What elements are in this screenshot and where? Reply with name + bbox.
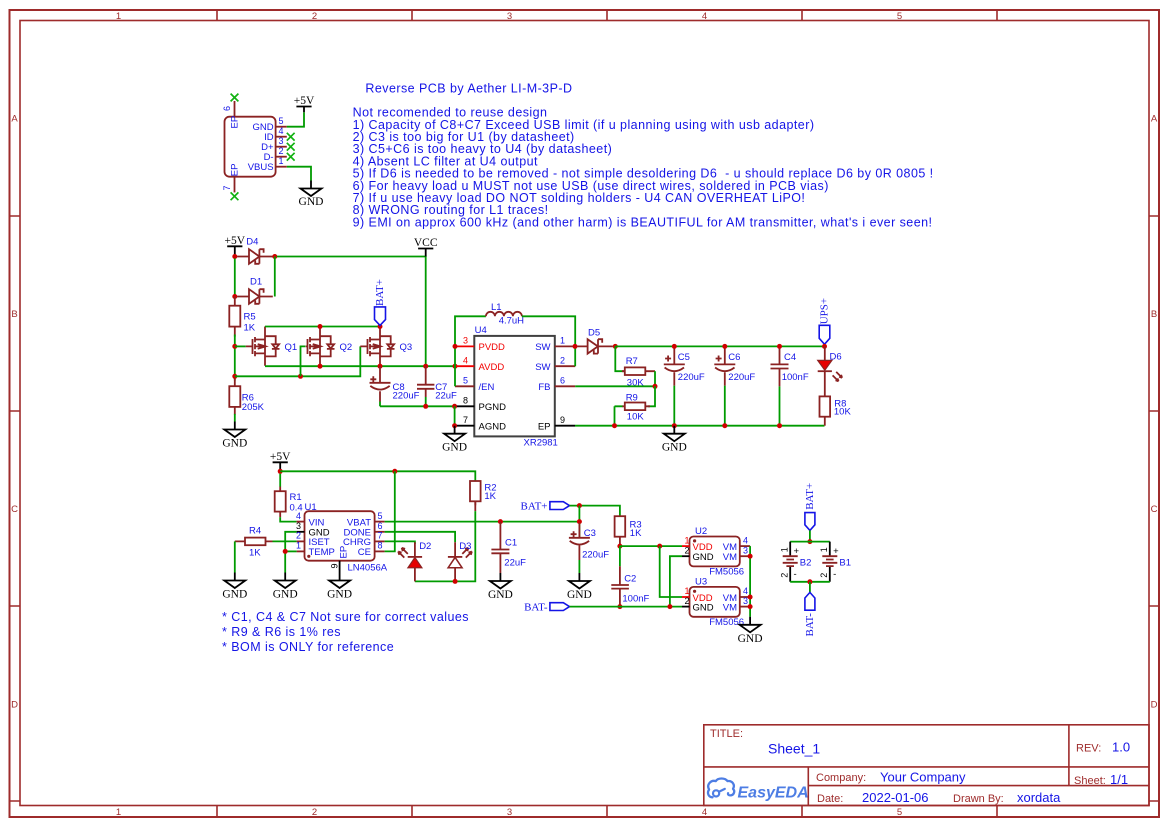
svg-text:2022-01-06: 2022-01-06 bbox=[862, 790, 929, 805]
svg-text:1K: 1K bbox=[484, 491, 496, 502]
net flag UPS+ bbox=[819, 298, 831, 344]
svg-text:7: 7 bbox=[463, 415, 468, 425]
frame bottom ticks bbox=[217, 806, 997, 818]
junction gate rail node bbox=[232, 374, 237, 379]
svg-text:TEMP: TEMP bbox=[309, 547, 335, 558]
svg-text:R9: R9 bbox=[626, 392, 638, 403]
svg-text:22uF: 22uF bbox=[435, 391, 457, 402]
svg-text:C6: C6 bbox=[728, 352, 740, 363]
junction Q2 gate drop bbox=[298, 374, 303, 379]
svg-text:22uF: 22uF bbox=[504, 558, 526, 569]
svg-text:220uF: 220uF bbox=[728, 372, 755, 383]
transistor Q1 bbox=[246, 327, 297, 366]
wire battery bottom to BAT- flag bbox=[809, 582, 811, 593]
NOTES TOP bbox=[353, 82, 934, 230]
pin 5 /EN bbox=[455, 385, 474, 387]
wire R4 to ISET bbox=[273, 540, 297, 542]
svg-text:B1: B1 bbox=[839, 557, 851, 568]
ground (C3) bbox=[569, 573, 590, 589]
junction C4 bottom bbox=[777, 423, 782, 428]
wire GND pin to +5V bbox=[287, 112, 304, 127]
pin 1 SW bbox=[555, 345, 575, 347]
junction C5 bottom bbox=[672, 423, 677, 428]
junction C1 top bbox=[498, 519, 503, 524]
U2 pin 2 GND bbox=[682, 555, 690, 557]
ground (C5) bbox=[664, 426, 685, 442]
svg-text:1/1: 1/1 bbox=[1110, 772, 1128, 787]
svg-text:D6: D6 bbox=[830, 352, 842, 363]
wire PGND to AGND bbox=[454, 406, 456, 425]
svg-text:REV:: REV: bbox=[1076, 743, 1101, 755]
svg-text:BAT+: BAT+ bbox=[521, 501, 548, 513]
wire R1 to VIN bbox=[280, 517, 296, 522]
svg-text:2: 2 bbox=[685, 596, 690, 606]
junction battery top bbox=[807, 539, 812, 544]
wire L1 to SW pins bbox=[522, 316, 575, 366]
pin 6 EP lead bbox=[234, 101, 236, 117]
svg-text:100nF: 100nF bbox=[622, 593, 649, 604]
svg-text:4.7uH: 4.7uH bbox=[499, 316, 524, 327]
svg-text:+5V: +5V bbox=[270, 451, 291, 463]
ground (C1) bbox=[490, 573, 511, 589]
wire TEMP to GND column bbox=[285, 550, 296, 552]
svg-text:5: 5 bbox=[378, 511, 383, 521]
wire battery bottom rail bbox=[790, 581, 830, 583]
pin 3 no-connect X bbox=[287, 143, 295, 151]
svg-text:* R9 & R6 is 1% res: * R9 & R6 is 1% res bbox=[222, 625, 341, 639]
capacitor C5 bbox=[664, 346, 705, 425]
svg-text:6: 6 bbox=[222, 106, 232, 111]
junction VBAT rail end bbox=[577, 519, 582, 524]
wire R7 to FB node bbox=[654, 371, 656, 386]
capacitor C7 bbox=[417, 366, 457, 406]
svg-text:Reverse PCB by Aether LI-M-3P-: Reverse PCB by Aether LI-M-3P-D bbox=[365, 82, 572, 96]
svg-text:4: 4 bbox=[463, 355, 468, 365]
svg-text:D: D bbox=[1151, 700, 1158, 711]
svg-text:8: 8 bbox=[463, 396, 468, 406]
junction Q2 source bbox=[318, 364, 323, 369]
svg-text:SW: SW bbox=[535, 342, 550, 353]
svg-text:LN4056A: LN4056A bbox=[348, 563, 388, 574]
svg-text:100nF: 100nF bbox=[782, 372, 809, 383]
svg-text:VBUS: VBUS bbox=[248, 162, 274, 173]
svg-text:2: 2 bbox=[779, 573, 789, 578]
net flag BAT+ (battery) bbox=[804, 483, 816, 531]
svg-text:+: + bbox=[794, 546, 800, 557]
pin 4 AVDD bbox=[455, 365, 474, 367]
LED D2 bbox=[398, 541, 431, 581]
svg-text:6: 6 bbox=[378, 521, 383, 531]
net flag BAT- (battery) bbox=[804, 592, 816, 636]
svg-text:U2: U2 bbox=[695, 526, 707, 537]
diode D4 bbox=[237, 237, 273, 264]
ground (U4) bbox=[444, 426, 465, 442]
frame left ticks bbox=[10, 216, 21, 801]
svg-text:3: 3 bbox=[463, 336, 468, 346]
op-amp U4 XR2981 body bbox=[474, 325, 558, 448]
junction C4 top bbox=[777, 344, 782, 349]
frame right ticks bbox=[1149, 216, 1159, 801]
power flag +5V (mid) bbox=[227, 246, 242, 256]
svg-text:FM5056: FM5056 bbox=[709, 567, 744, 578]
svg-text:GND: GND bbox=[693, 552, 714, 563]
junction C5 top bbox=[672, 344, 677, 349]
svg-text:8: 8 bbox=[378, 541, 383, 551]
svg-text:1: 1 bbox=[278, 156, 283, 166]
wire R9 to bottom rail bbox=[615, 406, 623, 425]
junction D3 anode rail bbox=[453, 579, 458, 584]
wire UPS rail bbox=[615, 345, 824, 347]
svg-text:220uF: 220uF bbox=[393, 391, 420, 402]
svg-text:5: 5 bbox=[278, 116, 283, 126]
U2 pin 3 VM bbox=[740, 555, 750, 557]
junction Q1 gate node bbox=[232, 344, 237, 349]
pin 2 no-connect X bbox=[287, 153, 295, 161]
svg-text:9: 9 bbox=[560, 415, 565, 425]
pin 6 no-connect X bbox=[231, 94, 239, 102]
svg-text:D1: D1 bbox=[250, 277, 262, 288]
svg-text:A: A bbox=[1151, 114, 1158, 125]
wire drain rail bbox=[265, 326, 380, 328]
svg-text:4: 4 bbox=[743, 586, 748, 596]
pin 8 PGND bbox=[457, 405, 474, 407]
svg-text:Drawn By:: Drawn By: bbox=[953, 793, 1004, 805]
svg-text:7: 7 bbox=[378, 531, 383, 541]
svg-text:1: 1 bbox=[560, 336, 565, 346]
svg-text:1K: 1K bbox=[249, 547, 261, 558]
svg-text:EasyEDA: EasyEDA bbox=[738, 785, 809, 802]
svg-text:VM: VM bbox=[723, 552, 737, 563]
EasyEDA logo bbox=[708, 778, 809, 801]
svg-text:1: 1 bbox=[819, 547, 829, 552]
pin 4 ID stub bbox=[276, 136, 287, 138]
svg-text:* BOM is ONLY for reference: * BOM is ONLY for reference bbox=[222, 640, 394, 654]
wire D1 cathode up to D4 node bbox=[274, 257, 276, 297]
frame top ticks bbox=[217, 10, 997, 21]
svg-text:C2: C2 bbox=[624, 573, 636, 584]
svg-text:-: - bbox=[833, 569, 836, 580]
ground (R6) bbox=[224, 422, 245, 438]
svg-text:GND: GND bbox=[442, 442, 467, 454]
wire CHRG to D2 bbox=[385, 541, 415, 544]
svg-text:GND: GND bbox=[299, 196, 324, 208]
wire BAT+ to battery rail bbox=[809, 530, 811, 541]
svg-text:/EN: /EN bbox=[479, 382, 495, 393]
wire gate rail bbox=[235, 346, 360, 376]
pin 2 ISET bbox=[297, 540, 305, 542]
pin 5 GND stub bbox=[276, 126, 287, 128]
svg-text:R7: R7 bbox=[626, 356, 638, 367]
svg-text:R4: R4 bbox=[249, 526, 261, 537]
inductor L1 bbox=[486, 302, 524, 327]
ground (U1 EP) bbox=[329, 573, 350, 589]
svg-text:10K: 10K bbox=[627, 411, 645, 422]
wire battery top rail bbox=[790, 541, 830, 543]
svg-text:D2: D2 bbox=[419, 541, 431, 552]
capacitor C3 bbox=[569, 523, 609, 573]
svg-text:4: 4 bbox=[702, 807, 707, 818]
pin 4 no-connect X bbox=[287, 133, 295, 141]
svg-text:AVDD: AVDD bbox=[479, 362, 505, 373]
wire D4 node to VCC corner bbox=[277, 257, 426, 365]
svg-text:EP: EP bbox=[229, 116, 240, 129]
junction pin3 node bbox=[453, 344, 458, 349]
op-amp U2 FM5056 body bbox=[690, 526, 745, 578]
svg-text:BAT+: BAT+ bbox=[804, 483, 816, 510]
svg-text:TITLE:: TITLE: bbox=[710, 728, 743, 740]
svg-text:D: D bbox=[11, 700, 18, 711]
svg-text:C5: C5 bbox=[678, 352, 690, 363]
ground (U1 pin3) bbox=[275, 573, 296, 589]
resistor R7 bbox=[622, 356, 655, 388]
svg-text:Sheet:: Sheet: bbox=[1074, 775, 1106, 787]
transistor Q3 bbox=[360, 327, 412, 366]
pin 7 AGND bbox=[457, 425, 474, 427]
svg-text:GND: GND bbox=[273, 589, 298, 601]
wire R2 bottom to LED rail bbox=[474, 501, 476, 511]
ground (usb) bbox=[301, 181, 322, 197]
resistor R4 bbox=[235, 526, 273, 559]
wire VM column bbox=[749, 546, 751, 617]
svg-text:U3: U3 bbox=[695, 576, 707, 587]
wire FB line bbox=[575, 385, 655, 387]
wire BAT- rail bbox=[570, 606, 683, 608]
svg-text:205K: 205K bbox=[242, 402, 265, 413]
wire DONE to D3 bbox=[385, 532, 456, 542]
pin 3 PVDD bbox=[455, 345, 474, 347]
junction D1 anode bbox=[232, 294, 237, 299]
net flag BAT- (charger) bbox=[524, 602, 569, 614]
junction battery bottom bbox=[807, 579, 812, 584]
svg-text:R5: R5 bbox=[244, 312, 256, 323]
svg-text:10K: 10K bbox=[834, 407, 852, 418]
U3 pin 2 GND bbox=[682, 606, 690, 608]
svg-text:D4: D4 bbox=[246, 237, 258, 248]
junction +5V/R1 bbox=[278, 469, 283, 474]
pin 3 GND bbox=[297, 531, 305, 533]
svg-text:1.0: 1.0 bbox=[1112, 740, 1130, 755]
svg-text:R1: R1 bbox=[290, 492, 302, 503]
junction FB node bbox=[653, 384, 658, 389]
svg-text:BAT-: BAT- bbox=[804, 613, 816, 637]
svg-text:PGND: PGND bbox=[479, 402, 507, 413]
junction Q3 source / C8 bbox=[378, 364, 383, 369]
wire U1 GND pin 3 down bbox=[285, 532, 296, 573]
capacitor C8 bbox=[370, 366, 420, 406]
junction C6 bottom bbox=[722, 423, 727, 428]
svg-text:4: 4 bbox=[296, 511, 301, 521]
resistor R6 bbox=[229, 379, 264, 415]
svg-text:220uF: 220uF bbox=[582, 550, 609, 561]
power flag VCC bbox=[418, 249, 433, 257]
svg-text:6: 6 bbox=[560, 376, 565, 386]
pin 3 D+ stub bbox=[276, 146, 287, 148]
svg-text:Q2: Q2 bbox=[340, 342, 353, 353]
svg-text:FB: FB bbox=[538, 382, 550, 393]
wire Q2 gate drop bbox=[301, 346, 306, 376]
svg-text:C4: C4 bbox=[784, 352, 796, 363]
svg-text:C3: C3 bbox=[584, 528, 596, 539]
svg-text:1K: 1K bbox=[630, 528, 642, 539]
svg-text:D5: D5 bbox=[588, 328, 600, 339]
pin 7 no-connect X bbox=[231, 192, 239, 200]
svg-text:3: 3 bbox=[507, 11, 512, 22]
battery B1 bbox=[819, 542, 851, 582]
svg-text:A: A bbox=[11, 114, 18, 125]
junction C6 top bbox=[722, 344, 727, 349]
wire VDD rail down to U3 bbox=[660, 546, 682, 597]
svg-text:7: 7 bbox=[222, 185, 232, 190]
NOTES BOTTOM bbox=[222, 610, 469, 654]
wire +5V rail to R2 bbox=[280, 471, 475, 481]
svg-text:2: 2 bbox=[312, 807, 317, 818]
pin 6 DONE bbox=[375, 531, 385, 533]
U2 pin 4 VM bbox=[740, 545, 750, 547]
junction CE riser top bbox=[392, 469, 397, 474]
pin 5 VBAT bbox=[375, 521, 385, 523]
svg-text:5: 5 bbox=[897, 807, 902, 818]
diode D5 (schottky) bbox=[577, 328, 613, 354]
wire R6 to ground bbox=[234, 414, 236, 422]
svg-text:SW: SW bbox=[535, 362, 550, 373]
junction UPS+/D6 bbox=[822, 344, 827, 349]
svg-text:B: B bbox=[1151, 309, 1157, 320]
svg-text:* C1, C4 & C7 Not sure for cor: * C1, C4 & C7 Not sure for correct value… bbox=[222, 610, 469, 624]
svg-text:+: + bbox=[833, 546, 839, 557]
wire +5V column to D1 bbox=[234, 259, 236, 297]
svg-text:5: 5 bbox=[897, 11, 902, 22]
resistor R8 bbox=[820, 396, 852, 425]
svg-text:GND: GND bbox=[738, 633, 763, 645]
svg-text:3: 3 bbox=[743, 596, 748, 606]
wire BAT+ down to C3 bbox=[578, 506, 580, 538]
svg-text:U4: U4 bbox=[475, 325, 487, 336]
svg-text:9: 9 bbox=[330, 563, 340, 568]
svg-text:Your Company: Your Company bbox=[880, 770, 966, 785]
svg-text:B2: B2 bbox=[800, 557, 812, 568]
svg-text:3: 3 bbox=[743, 545, 748, 555]
wire FB node down to R9 bbox=[648, 386, 655, 406]
svg-text:Q1: Q1 bbox=[285, 342, 298, 353]
svg-text:+5V: +5V bbox=[294, 95, 315, 107]
resistor R5 bbox=[229, 297, 255, 337]
LED D6 bbox=[818, 346, 842, 396]
svg-text:AGND: AGND bbox=[479, 422, 507, 433]
pin 4 VIN bbox=[297, 521, 305, 523]
pin 9 EP bbox=[339, 561, 341, 573]
svg-text:C: C bbox=[11, 504, 18, 515]
svg-text:3: 3 bbox=[507, 807, 512, 818]
pin 9 EP bbox=[555, 425, 575, 427]
resistor R3 bbox=[615, 516, 642, 546]
svg-text:1: 1 bbox=[779, 547, 789, 552]
svg-text:BAT+: BAT+ bbox=[374, 279, 386, 306]
svg-text:Company:: Company: bbox=[816, 772, 866, 784]
junction C7 bottom bbox=[423, 404, 428, 409]
svg-text:GND: GND bbox=[222, 589, 247, 601]
svg-text:VCC: VCC bbox=[414, 237, 438, 249]
svg-text:GND: GND bbox=[662, 442, 687, 454]
svg-text:B: B bbox=[11, 309, 17, 320]
diode D1 bbox=[237, 277, 273, 304]
svg-text:C1: C1 bbox=[505, 538, 517, 549]
svg-text:5: 5 bbox=[463, 376, 468, 386]
wire PVDD node up to L1 bbox=[455, 316, 486, 386]
svg-text:EP: EP bbox=[538, 422, 551, 433]
capacitor C1 bbox=[491, 522, 526, 573]
svg-text:xordata: xordata bbox=[1017, 790, 1061, 805]
wire Q1 gate bbox=[235, 345, 246, 347]
svg-text:4: 4 bbox=[743, 535, 748, 545]
svg-text:1: 1 bbox=[685, 586, 690, 596]
svg-text:Sheet_1: Sheet_1 bbox=[768, 741, 820, 757]
svg-text:GND: GND bbox=[693, 602, 714, 613]
U3 pin 3 VM bbox=[740, 606, 750, 608]
junction D5 cathode bbox=[613, 344, 618, 349]
junction U2 VM3 bbox=[748, 554, 753, 559]
svg-text:GND: GND bbox=[488, 589, 513, 601]
resistor R1 bbox=[275, 474, 303, 517]
pin 8 CE bbox=[375, 550, 385, 552]
wire U2 GND down to BAT- rail bbox=[670, 556, 682, 606]
svg-text:1K: 1K bbox=[244, 323, 256, 334]
pin 2 SW bbox=[555, 365, 575, 367]
net flag BAT+ (Q3) bbox=[374, 279, 386, 325]
pin 7 EP lead bbox=[234, 177, 236, 193]
U2 pin 1 VDD bbox=[682, 545, 690, 547]
svg-text:GND: GND bbox=[567, 589, 592, 601]
svg-text:U1: U1 bbox=[305, 502, 317, 513]
junction BAT+ node bbox=[577, 503, 582, 508]
svg-text:GND: GND bbox=[327, 589, 352, 601]
svg-text:2: 2 bbox=[312, 11, 317, 22]
wire D5 node down to R7 bbox=[615, 346, 625, 371]
svg-text:VM: VM bbox=[723, 602, 737, 613]
svg-text:GND: GND bbox=[222, 438, 247, 450]
junction Q2 drain bbox=[318, 324, 323, 329]
wire VBAT rail bbox=[385, 521, 580, 523]
U3 pin 1 VDD bbox=[682, 596, 690, 598]
svg-text:XR2981: XR2981 bbox=[524, 437, 558, 448]
U3 pin 4 VM bbox=[740, 596, 750, 598]
svg-text:PVDD: PVDD bbox=[479, 342, 506, 353]
junction +5V/D4 bbox=[232, 254, 237, 259]
svg-text:9) EMI on approx 600 kHz (and: 9) EMI on approx 600 kHz (and other harm… bbox=[353, 215, 933, 229]
pin 7 CHRG bbox=[375, 540, 385, 542]
junction R9 bottom bbox=[612, 423, 617, 428]
wire CE to +5V riser bbox=[385, 471, 395, 551]
wire VDD rail bbox=[620, 545, 682, 547]
wire R5 to R6 column bbox=[234, 335, 236, 381]
pin 1 VBUS stub bbox=[276, 166, 287, 168]
svg-text:CE: CE bbox=[358, 547, 371, 558]
svg-text:1: 1 bbox=[685, 535, 690, 545]
svg-text:UPS+: UPS+ bbox=[819, 298, 831, 324]
svg-text:L1: L1 bbox=[491, 302, 502, 313]
capacitor C4 bbox=[771, 346, 809, 425]
svg-text:BAT-: BAT- bbox=[524, 602, 548, 614]
junction PGND pin bbox=[452, 404, 457, 409]
svg-text:2: 2 bbox=[819, 573, 829, 578]
svg-text:FM5056: FM5056 bbox=[709, 617, 744, 628]
junction C7 / VCC bbox=[423, 364, 428, 369]
svg-text:1: 1 bbox=[116, 11, 121, 22]
wire R4 left to ground bbox=[234, 541, 236, 572]
svg-text:D3: D3 bbox=[459, 541, 471, 552]
wire C8/C7 bottom to PGND bbox=[380, 405, 455, 407]
pin 1 TEMP bbox=[297, 550, 305, 552]
svg-text:+5V: +5V bbox=[225, 235, 246, 247]
